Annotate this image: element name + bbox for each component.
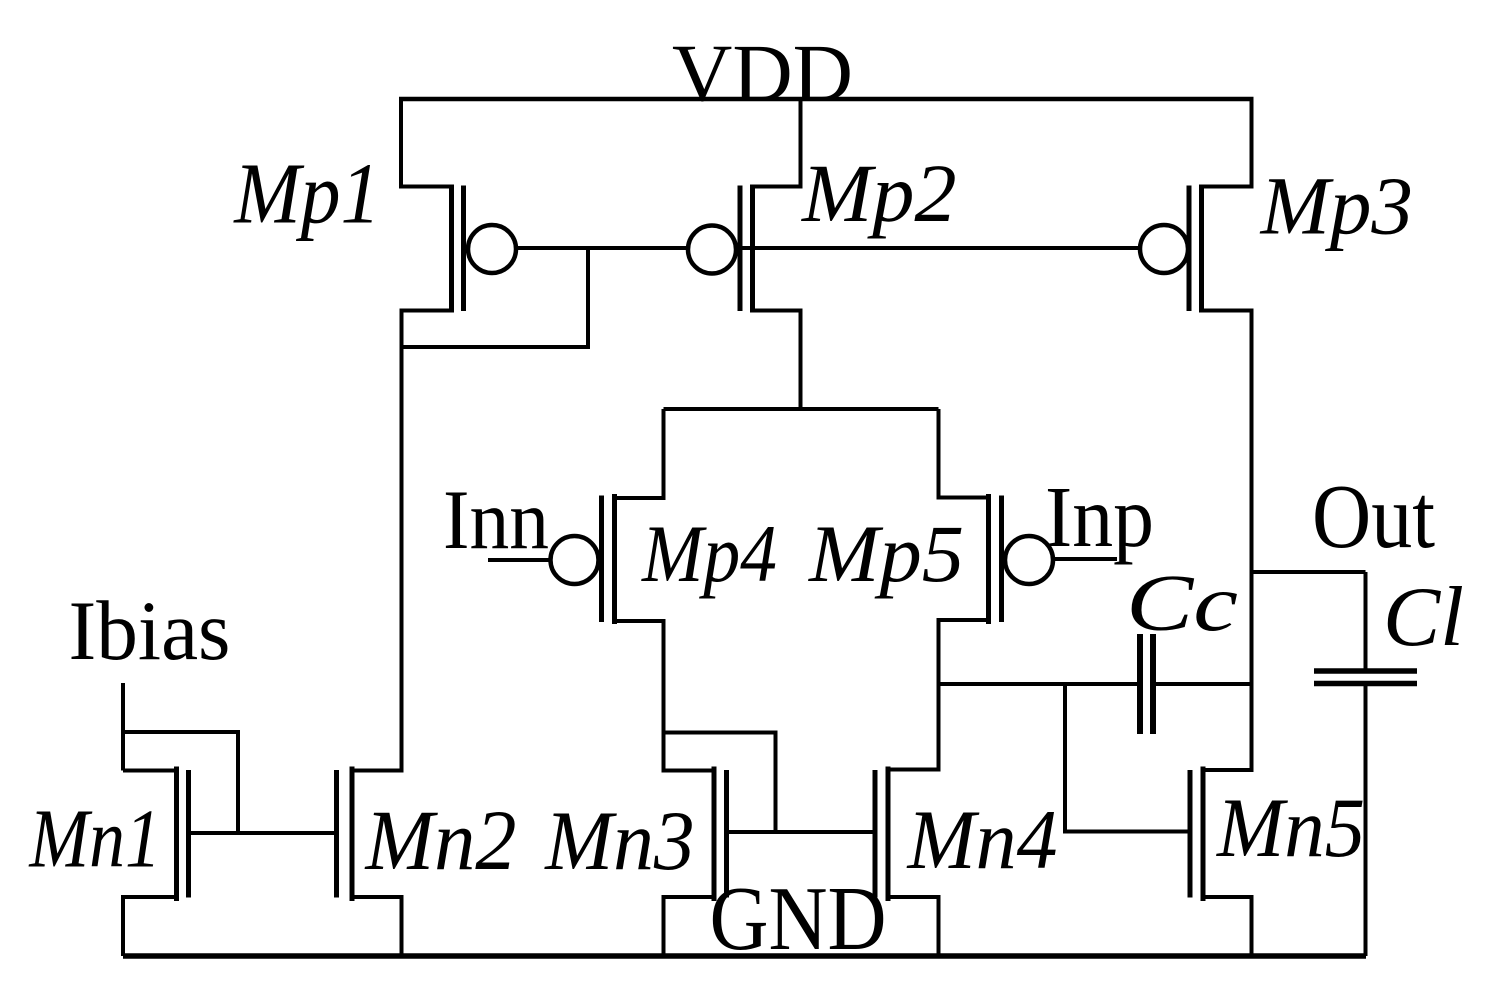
wire GND rail [123, 953, 1366, 959]
transistor Mp5 [989, 494, 1002, 624]
wire Mn1 source to GND [123, 897, 177, 956]
wire tail to Mp5 source [939, 409, 989, 498]
transistor Mn5 [1190, 767, 1203, 902]
capacitor Cc [1140, 634, 1153, 734]
transistor Mp3 [1189, 185, 1202, 313]
svg-text:GND: GND [710, 868, 887, 969]
wire Mn3 source to GND [664, 897, 715, 956]
svg-text:Ibias: Ibias [69, 584, 231, 678]
wire Mn2 source to GND [352, 897, 402, 956]
wire Mn1 gate-drain tie [123, 732, 238, 833]
wire Mn1 Mn2 gate line [189, 831, 337, 835]
transistor Mn3 [714, 767, 727, 902]
wire tail to Mp4 source [615, 409, 664, 498]
svg-text:Mp5: Mp5 [808, 508, 964, 599]
svg-text:Mp1: Mp1 [232, 146, 380, 242]
capacitor Cl [1314, 671, 1417, 684]
transistor Mn2 [337, 767, 353, 902]
wire node B to Mn5 gate [1065, 684, 1188, 832]
wire Cl bottom plate to GND [1364, 684, 1368, 957]
wire Mp1 drain to Mn2 drain [352, 311, 452, 771]
svg-text:Mn4: Mn4 [907, 793, 1058, 887]
svg-text:Mn5: Mn5 [1216, 781, 1365, 875]
svg-text:Cc: Cc [1126, 559, 1238, 648]
wire Inp gate lead [1029, 557, 1117, 561]
wire Out to Cl top plate [1364, 572, 1368, 671]
Mp3 gate bubble [1140, 225, 1188, 273]
wire VDD rail [399, 97, 1254, 102]
transistor Mp4 [602, 494, 615, 624]
wire PMOS mirror gate line [492, 246, 1164, 250]
svg-text:Cl: Cl [1383, 571, 1464, 664]
svg-text:Mp3: Mp3 [1260, 159, 1413, 251]
svg-text:Mn1: Mn1 [29, 793, 161, 886]
svg-text:Inp: Inp [1045, 469, 1154, 565]
svg-text:Mn2: Mn2 [364, 792, 517, 888]
svg-text:VDD: VDD [672, 28, 853, 119]
transistor Mp1 [452, 185, 464, 313]
Mp2 gate bubble [688, 226, 736, 274]
transistor Mn1 [177, 767, 189, 902]
wire Inn gate lead [488, 558, 575, 562]
wire Mn3 Mn4 gate line [727, 830, 876, 834]
wire VDD to Mp1 source [401, 99, 452, 187]
wire Mn1 drain stub [123, 769, 177, 773]
wire Mp4 drain to Mn3 drain [615, 621, 715, 771]
svg-text:Inn: Inn [443, 473, 549, 567]
wire VDD to Mp3 source [1202, 99, 1252, 187]
svg-text:Out: Out [1312, 466, 1435, 567]
wire Cc right plate to Out line [1153, 682, 1252, 686]
svg-text:Mn3: Mn3 [544, 794, 694, 888]
wire Out tap [1252, 570, 1366, 574]
Mp5 gate bubble [1005, 536, 1053, 584]
transistor Mp2 [740, 185, 753, 313]
wire tail node top [664, 407, 939, 411]
Mp1 gate bubble [468, 225, 516, 273]
wire Mp3 drain to Mn5 drain (Out line) [1202, 311, 1252, 771]
wire Mn4 source to GND [888, 897, 939, 956]
wire node B to Cc left plate [939, 682, 1141, 686]
wire Mp2 drain to tail [753, 311, 801, 410]
wire Mp5 drain to Mn4 drain [888, 620, 989, 770]
wire VDD to Mp2 source [753, 99, 801, 187]
wire Mn5 source to GND [1203, 897, 1252, 956]
svg-text:Mp2: Mp2 [801, 147, 957, 239]
wire Mn3 gate-drain tie [664, 733, 776, 833]
transistor Mn4 [875, 767, 888, 902]
Mp4 gate bubble [551, 536, 599, 584]
svg-text:Mp4: Mp4 [641, 508, 777, 599]
wire Ibias lead [121, 683, 125, 771]
wire Mp1 gate-drain tie [402, 248, 589, 347]
